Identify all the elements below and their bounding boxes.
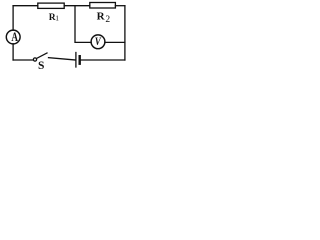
svg-text:A: A <box>11 29 18 44</box>
svg-text:R: R <box>97 10 106 22</box>
svg-text:1: 1 <box>55 14 59 23</box>
svg-text:S: S <box>38 60 44 72</box>
svg-text:2: 2 <box>105 15 110 25</box>
svg-text:V: V <box>95 34 102 48</box>
